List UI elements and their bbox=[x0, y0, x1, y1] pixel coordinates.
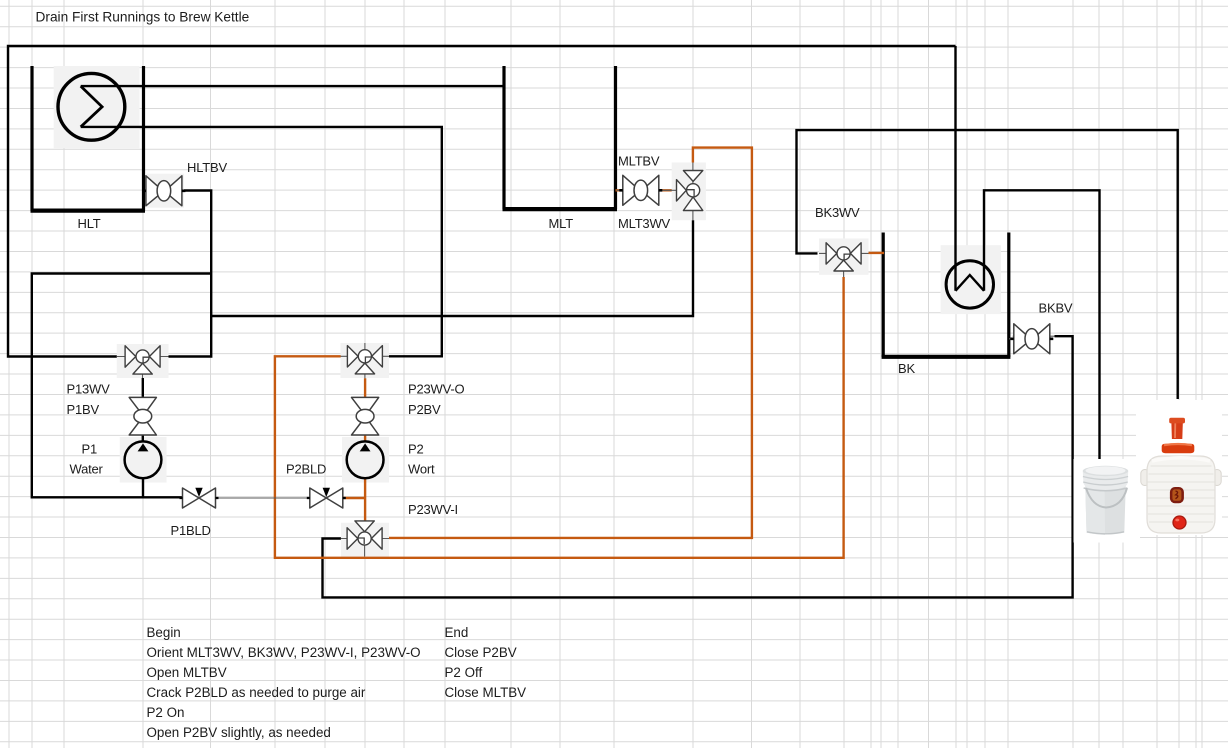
svg-text:Orient MLT3WV, BK3WV, P23WV-I,: Orient MLT3WV, BK3WV, P23WV-I, P23WV-O bbox=[147, 645, 421, 660]
svg-text:Water: Water bbox=[70, 462, 104, 477]
svg-text:Close P2BV: Close P2BV bbox=[445, 645, 517, 660]
svg-text:P2: P2 bbox=[408, 442, 424, 457]
svg-text:MLT3WV: MLT3WV bbox=[618, 216, 671, 231]
svg-text:Crack P2BLD as needed to purge: Crack P2BLD as needed to purge air bbox=[147, 685, 366, 700]
svg-text:P2BLD: P2BLD bbox=[286, 462, 326, 477]
svg-text:Begin: Begin bbox=[147, 625, 181, 640]
svg-text:Wort: Wort bbox=[408, 462, 435, 477]
svg-text:MLTBV: MLTBV bbox=[618, 154, 660, 169]
svg-text:P2 Off: P2 Off bbox=[445, 665, 483, 680]
svg-text:MLT: MLT bbox=[549, 216, 574, 231]
svg-text:BKBV: BKBV bbox=[1039, 301, 1073, 316]
svg-text:BK3WV: BK3WV bbox=[815, 205, 860, 220]
svg-text:HLTBV: HLTBV bbox=[187, 160, 227, 175]
svg-text:Drain First Runnings to Brew K: Drain First Runnings to Brew Kettle bbox=[36, 9, 250, 24]
svg-text:BK: BK bbox=[898, 361, 915, 376]
svg-text:P2 On: P2 On bbox=[147, 705, 185, 720]
svg-text:HLT: HLT bbox=[78, 216, 101, 231]
svg-text:Open MLTBV: Open MLTBV bbox=[147, 665, 227, 680]
svg-text:P1BLD: P1BLD bbox=[171, 523, 211, 538]
svg-text:P1: P1 bbox=[82, 442, 98, 457]
svg-text:Open P2BV slightly, as needed: Open P2BV slightly, as needed bbox=[147, 725, 331, 740]
svg-text:P13WV: P13WV bbox=[67, 382, 111, 397]
svg-text:P2BV: P2BV bbox=[408, 402, 441, 417]
svg-text:Close MLTBV: Close MLTBV bbox=[445, 685, 527, 700]
svg-text:P23WV-O: P23WV-O bbox=[408, 382, 464, 397]
svg-text:P23WV-I: P23WV-I bbox=[408, 502, 458, 517]
svg-text:End: End bbox=[445, 625, 469, 640]
svg-text:P1BV: P1BV bbox=[67, 402, 100, 417]
